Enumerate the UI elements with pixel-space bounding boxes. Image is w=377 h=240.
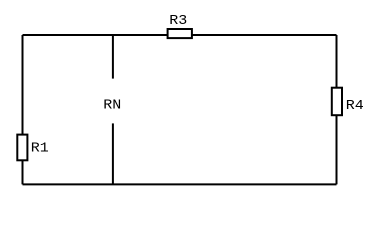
resistor R3 [168,29,192,38]
wire bottom rail [23,183,337,185]
wire left rail [22,35,24,184]
wire top rail [23,34,337,36]
svg-text:R1: R1 [31,141,49,156]
svg-text:RN: RN [103,98,121,113]
svg-text:R3: R3 [169,14,187,29]
resistor R4 [332,88,342,116]
wire right rail [336,35,338,184]
svg-text:R4: R4 [346,98,364,113]
wire middle branch lower segment [112,123,114,184]
resistor R1 [17,135,27,161]
wire middle branch upper segment [112,35,114,79]
